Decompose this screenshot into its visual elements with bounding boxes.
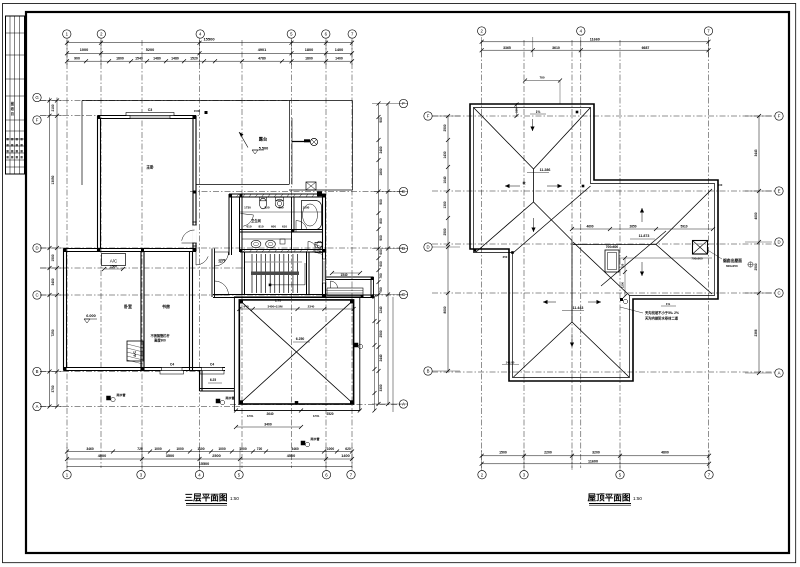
svg-text:卧室: 卧室 bbox=[124, 303, 132, 309]
svg-text:2500: 2500 bbox=[379, 330, 383, 337]
svg-text:4800: 4800 bbox=[661, 451, 669, 455]
handrail bbox=[251, 272, 299, 276]
svg-text:1480: 1480 bbox=[153, 57, 161, 61]
svg-text:天沟找坡不小于5‰ 2%: 天沟找坡不小于5‰ 2% bbox=[645, 310, 679, 315]
svg-text:2500: 2500 bbox=[754, 263, 758, 270]
hatched wall column bbox=[315, 243, 323, 253]
svg-text:4000: 4000 bbox=[754, 212, 758, 219]
svg-text:2520: 2520 bbox=[326, 412, 333, 416]
left plan bottom axis circles bbox=[63, 471, 71, 479]
valley to step corner bbox=[476, 202, 534, 252]
svg-text:1000: 1000 bbox=[154, 447, 162, 451]
valley D bbox=[573, 242, 630, 296]
svg-text:4600: 4600 bbox=[586, 225, 593, 229]
bedroom door gap bbox=[192, 225, 196, 243]
svg-text:1040: 1040 bbox=[443, 176, 447, 183]
door arcs lobby bbox=[215, 252, 229, 266]
svg-text:2500: 2500 bbox=[443, 124, 447, 131]
svg-text:1000: 1000 bbox=[218, 447, 226, 451]
svg-text:148.00: 148.00 bbox=[506, 361, 515, 365]
hip SE bbox=[572, 322, 629, 377]
right wing ridge bbox=[573, 244, 656, 246]
svg-text:8000: 8000 bbox=[443, 306, 447, 313]
svg-text:A/C: A/C bbox=[110, 259, 118, 264]
svg-text:露台: 露台 bbox=[259, 136, 267, 143]
svg-text:900: 900 bbox=[74, 57, 80, 61]
svg-text:1%: 1% bbox=[666, 302, 671, 306]
stair mid landing line bbox=[245, 261, 302, 263]
svg-text:11660: 11660 bbox=[590, 37, 600, 41]
svg-text:E: E bbox=[778, 189, 781, 194]
bedroom walls bbox=[98, 115, 197, 117]
wall hatching bbox=[243, 250, 246, 253]
svg-text:D: D bbox=[35, 246, 38, 251]
left plan: horizontal axis lines bbox=[40, 100, 300, 102]
svg-text:6687: 6687 bbox=[642, 46, 650, 50]
right plan top axis circles bbox=[478, 27, 486, 35]
svg-text:1400: 1400 bbox=[335, 48, 343, 52]
svg-text:C: C bbox=[35, 293, 38, 298]
vanity sinks bbox=[242, 238, 292, 240]
skylight dims bbox=[624, 258, 626, 296]
svg-text:7250: 7250 bbox=[51, 329, 55, 336]
svg-text:3200: 3200 bbox=[592, 451, 600, 455]
svg-text:1500: 1500 bbox=[499, 451, 507, 455]
svg-text:900: 900 bbox=[379, 199, 383, 205]
chimney bbox=[693, 241, 708, 255]
svg-text:1500: 1500 bbox=[110, 265, 117, 269]
svg-text:620: 620 bbox=[345, 447, 351, 451]
svg-text:700x600: 700x600 bbox=[691, 257, 703, 261]
connector ridge bbox=[534, 202, 573, 241]
svg-text:1500: 1500 bbox=[303, 206, 310, 210]
svg-text:11.873: 11.873 bbox=[639, 234, 650, 238]
svg-text:1.75: 1.75 bbox=[275, 299, 281, 303]
svg-text:750: 750 bbox=[621, 263, 625, 268]
svg-text:3610: 3610 bbox=[552, 46, 560, 50]
svg-text:主卧: 主卧 bbox=[146, 165, 154, 170]
flue box bbox=[306, 182, 316, 190]
svg-text:1240: 1240 bbox=[379, 306, 383, 313]
left plan left dimensions bbox=[49, 98, 51, 407]
stair arrow bbox=[269, 284, 272, 287]
svg-text:2640: 2640 bbox=[266, 412, 273, 416]
svg-text:4901: 4901 bbox=[258, 48, 266, 52]
A/C box bbox=[102, 254, 126, 266]
svg-text:1300: 1300 bbox=[443, 201, 447, 208]
svg-text:1400: 1400 bbox=[335, 57, 343, 61]
left plan top axis circles bbox=[63, 30, 71, 38]
svg-text:2400: 2400 bbox=[379, 146, 383, 153]
stair treads bbox=[251, 254, 253, 293]
toilet 2 bbox=[276, 197, 284, 201]
svg-text:1430: 1430 bbox=[443, 151, 447, 158]
svg-text:880: 880 bbox=[278, 206, 283, 210]
svg-text:780: 780 bbox=[539, 76, 544, 80]
svg-text:6.25: 6.25 bbox=[210, 378, 216, 382]
svg-text:2440: 2440 bbox=[379, 354, 383, 361]
svg-text:1540: 1540 bbox=[135, 57, 143, 61]
svg-text:天沟内做防水卷材二道: 天沟内做防水卷材二道 bbox=[645, 316, 679, 321]
svg-text:1000: 1000 bbox=[239, 447, 247, 451]
left plan left axis circles bbox=[33, 93, 41, 101]
wc pan right bbox=[317, 241, 322, 248]
svg-text:过厅: 过厅 bbox=[218, 258, 226, 263]
right plan: vertical axis lines bbox=[481, 40, 483, 468]
svg-text:2500: 2500 bbox=[212, 454, 220, 458]
slope arrows bbox=[505, 185, 520, 187]
svg-text:书房: 书房 bbox=[162, 303, 170, 309]
svg-text:5910: 5910 bbox=[680, 225, 687, 229]
svg-text:1200: 1200 bbox=[621, 281, 625, 288]
svg-text:780: 780 bbox=[379, 287, 383, 293]
svg-text:雨水管: 雨水管 bbox=[116, 392, 125, 397]
hip ESE bbox=[656, 245, 712, 295]
right plan left axis circles bbox=[424, 112, 432, 120]
svg-text:600: 600 bbox=[379, 261, 383, 267]
left plan bottom dimensions bbox=[67, 451, 352, 453]
svg-text:3460: 3460 bbox=[86, 447, 94, 451]
svg-text:3400×2.5M: 3400×2.5M bbox=[267, 305, 283, 309]
right plan right dims bbox=[758, 116, 760, 373]
svg-text:E: E bbox=[402, 189, 405, 194]
right small room bbox=[326, 276, 374, 278]
svg-text:720: 720 bbox=[257, 447, 263, 451]
svg-text:1400: 1400 bbox=[341, 454, 349, 458]
main ridge bbox=[533, 169, 535, 202]
hip NE bbox=[534, 108, 591, 170]
svg-text:雨水管: 雨水管 bbox=[310, 436, 319, 441]
bathroom walls bbox=[229, 193, 326, 195]
svg-text:610: 610 bbox=[246, 224, 251, 228]
toilet 1 bbox=[260, 197, 267, 201]
svg-text:2500: 2500 bbox=[443, 228, 447, 235]
svg-text:坡: 坡 bbox=[522, 180, 525, 185]
ridge dims bbox=[572, 228, 713, 230]
svg-text:1800: 1800 bbox=[116, 57, 124, 61]
skylight bbox=[605, 250, 619, 272]
svg-text:940: 940 bbox=[243, 305, 248, 309]
svg-text:C: C bbox=[402, 292, 405, 297]
svg-text:1800: 1800 bbox=[305, 57, 313, 61]
A/C closet hatched bbox=[127, 341, 143, 361]
svg-text:1520: 1520 bbox=[190, 57, 198, 61]
svg-text:2366: 2366 bbox=[754, 329, 758, 336]
level flag symbol bbox=[292, 141, 310, 143]
svg-text:A: A bbox=[36, 404, 39, 409]
svg-text:1800: 1800 bbox=[379, 168, 383, 175]
svg-text:0.5%: 0.5% bbox=[313, 414, 320, 418]
roof inner line bbox=[474, 108, 715, 378]
svg-text:3400: 3400 bbox=[264, 423, 272, 427]
svg-text:1540: 1540 bbox=[340, 273, 347, 277]
corridor walls bbox=[211, 249, 213, 298]
svg-text:卫生间: 卫生间 bbox=[251, 218, 262, 223]
right plan right axis circles bbox=[775, 112, 783, 120]
svg-text:A/C: A/C bbox=[133, 351, 137, 357]
svg-text:不锈钢管栏杆: 不锈钢管栏杆 bbox=[150, 333, 170, 338]
right wall window bbox=[323, 259, 326, 283]
svg-text:高度900: 高度900 bbox=[154, 338, 166, 343]
svg-text:4000: 4000 bbox=[98, 454, 106, 458]
svg-text:F: F bbox=[427, 114, 430, 119]
right plan bottom dims bbox=[482, 455, 709, 457]
chimney label bbox=[708, 250, 723, 259]
right plan left dims bbox=[447, 116, 449, 371]
hip NW bbox=[474, 108, 534, 170]
right plan: horizontal axis lines bbox=[432, 115, 775, 117]
svg-text:6.250: 6.250 bbox=[296, 337, 305, 341]
svg-text:F: F bbox=[402, 101, 405, 106]
svg-text:610: 610 bbox=[282, 224, 287, 228]
rain pipes bbox=[106, 396, 111, 401]
svg-text:图: 图 bbox=[11, 101, 14, 106]
svg-text:600: 600 bbox=[271, 224, 276, 228]
lower-left room walls bbox=[64, 248, 197, 250]
svg-text:13050: 13050 bbox=[51, 175, 55, 184]
svg-text:B: B bbox=[427, 369, 430, 374]
roof outer eave bbox=[470, 104, 718, 381]
svg-text:11600: 11600 bbox=[588, 459, 598, 463]
svg-text:2200: 2200 bbox=[544, 451, 552, 455]
middle room wall bbox=[189, 252, 191, 371]
upper eave lines bbox=[82, 100, 353, 102]
svg-text:500: 500 bbox=[718, 183, 723, 187]
svg-text:600: 600 bbox=[379, 249, 383, 255]
svg-text:800: 800 bbox=[379, 218, 383, 224]
svg-text:1000: 1000 bbox=[80, 48, 88, 52]
dims inside terrace top bbox=[239, 308, 353, 310]
svg-text:3300: 3300 bbox=[379, 384, 383, 391]
svg-text:A: A bbox=[778, 371, 781, 376]
svg-text:3400: 3400 bbox=[51, 278, 55, 285]
svg-text:6.000: 6.000 bbox=[86, 314, 96, 318]
svg-text:0.5%: 0.5% bbox=[247, 414, 254, 418]
svg-text:1000: 1000 bbox=[327, 447, 335, 451]
bottom wall windows bbox=[144, 367, 225, 369]
svg-text:900: 900 bbox=[379, 235, 383, 241]
svg-text:250: 250 bbox=[503, 255, 508, 259]
svg-text:2340: 2340 bbox=[308, 305, 315, 309]
svg-text:1:50: 1:50 bbox=[230, 496, 239, 501]
svg-text:F: F bbox=[778, 114, 781, 119]
svg-text:烟囱出屋面: 烟囱出屋面 bbox=[723, 258, 742, 263]
svg-text:700x600: 700x600 bbox=[606, 245, 619, 249]
svg-text:C4: C4 bbox=[170, 363, 174, 367]
stairwell bbox=[241, 252, 243, 295]
svg-text:5200: 5200 bbox=[146, 48, 154, 52]
svg-text:850: 850 bbox=[264, 206, 269, 210]
svg-text:600x250: 600x250 bbox=[726, 264, 738, 268]
bath doors bbox=[243, 215, 253, 226]
left plan: vertical axis lines bbox=[66, 40, 68, 468]
valley E bbox=[601, 231, 666, 286]
terrace square with X bbox=[234, 297, 359, 411]
svg-text:2650: 2650 bbox=[629, 225, 636, 229]
svg-text:3365: 3365 bbox=[503, 46, 511, 50]
svg-text:1%: 1% bbox=[536, 110, 541, 114]
svg-text:D: D bbox=[426, 245, 429, 250]
balcony railing band bbox=[327, 288, 363, 296]
svg-text:1800: 1800 bbox=[305, 48, 313, 52]
svg-text:D: D bbox=[402, 246, 405, 251]
svg-text:屋顶平面图: 屋顶平面图 bbox=[588, 493, 631, 503]
svg-text:2100: 2100 bbox=[51, 104, 55, 111]
svg-text:11.443: 11.443 bbox=[573, 306, 584, 310]
bottom ridge bbox=[571, 241, 573, 323]
right plan bottom axis circles bbox=[478, 471, 486, 479]
svg-text:目: 目 bbox=[11, 111, 14, 116]
left plan top dimensions bbox=[67, 42, 352, 44]
svg-text:11.286: 11.286 bbox=[540, 168, 551, 172]
left plan right dimensions bbox=[378, 104, 380, 405]
svg-text:C4: C4 bbox=[210, 363, 214, 367]
svg-text:1500: 1500 bbox=[51, 254, 55, 261]
svg-text:900: 900 bbox=[379, 117, 383, 123]
svg-text:D: D bbox=[777, 240, 780, 245]
svg-text:3460: 3460 bbox=[291, 447, 299, 451]
svg-text:15500: 15500 bbox=[203, 37, 215, 42]
window C3 bbox=[126, 113, 174, 116]
svg-text:3443: 3443 bbox=[754, 149, 758, 156]
svg-text:C: C bbox=[777, 291, 780, 296]
svg-text:三层平面图: 三层平面图 bbox=[185, 493, 228, 503]
svg-text:1730: 1730 bbox=[244, 206, 251, 210]
svg-text:雨水管: 雨水管 bbox=[225, 395, 234, 400]
svg-text:1480: 1480 bbox=[171, 57, 179, 61]
svg-text:F: F bbox=[36, 118, 39, 123]
svg-text:3500: 3500 bbox=[166, 454, 174, 458]
right plan top dims bbox=[482, 41, 709, 43]
downspout bbox=[620, 298, 623, 301]
svg-text:4780: 4780 bbox=[258, 57, 266, 61]
svg-text:3700: 3700 bbox=[51, 385, 55, 392]
step-down walls bbox=[199, 371, 201, 392]
wall dim 1500 bbox=[205, 111, 208, 114]
svg-text:1:50: 1:50 bbox=[633, 496, 642, 501]
svg-text:4500: 4500 bbox=[287, 454, 295, 458]
bathtub bbox=[302, 201, 322, 230]
svg-text:1500: 1500 bbox=[194, 109, 201, 113]
valley A bbox=[514, 186, 591, 253]
dims below terrace bbox=[234, 409, 238, 413]
svg-text:C3: C3 bbox=[148, 108, 153, 112]
svg-text:760: 760 bbox=[379, 273, 383, 279]
title block table bbox=[6, 16, 25, 174]
svg-text:1100: 1100 bbox=[197, 447, 204, 451]
svg-text:A: A bbox=[402, 402, 405, 407]
hip SW bbox=[514, 322, 573, 377]
hip ENE bbox=[656, 189, 712, 245]
svg-text:B: B bbox=[36, 369, 39, 374]
svg-text:15500: 15500 bbox=[199, 462, 210, 466]
left plan right axis circles bbox=[399, 99, 407, 107]
svg-text:1000: 1000 bbox=[176, 447, 184, 451]
svg-text:810: 810 bbox=[258, 224, 263, 228]
